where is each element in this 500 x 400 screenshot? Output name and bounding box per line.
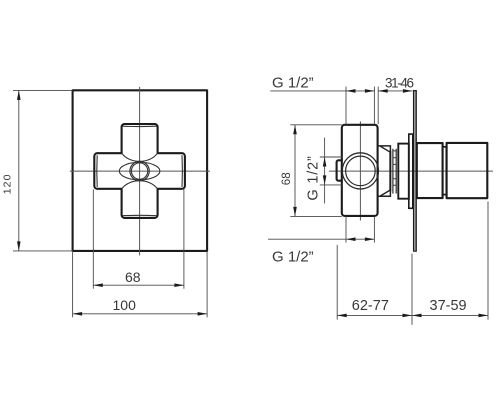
thread ticks bbox=[393, 151, 397, 185]
left port bump bbox=[337, 160, 342, 180]
side G 1/2 arrow down bbox=[323, 175, 327, 185]
outer center circle bbox=[130, 161, 149, 180]
wall plate bbox=[414, 91, 416, 252]
right arm chamfer line bbox=[181, 155, 183, 187]
bottom G 1/2 extension line left bbox=[345, 216, 347, 242]
dimension 37-59 arrow right bbox=[479, 314, 489, 318]
dimension 120 line bbox=[18, 90, 20, 251]
dimension 68 (right) arrow up bbox=[293, 125, 297, 135]
dimension 100 arrow left bbox=[73, 312, 83, 316]
dimension 31-46 arrow left bbox=[378, 89, 388, 93]
dimension 68 (right) extension line bottom bbox=[290, 215, 342, 217]
svg-text:31-46: 31-46 bbox=[385, 76, 414, 91]
bottom G 1/2 arrow left bbox=[346, 237, 356, 241]
dimension 68 extension line right bbox=[183, 189, 185, 289]
center ellipse bbox=[119, 162, 160, 180]
dimension 37-59 line bbox=[412, 314, 488, 316]
dimension 31-46 arrow right bbox=[403, 89, 413, 93]
dimension 68 (right) extension line top bbox=[290, 124, 342, 126]
square plate bbox=[73, 90, 208, 251]
side port outer circle bbox=[342, 153, 378, 189]
svg-text:120: 120 bbox=[2, 174, 14, 194]
dimension 100 line bbox=[73, 313, 208, 315]
handle neck bbox=[417, 143, 443, 198]
dimension 68 arrow left bbox=[93, 283, 103, 287]
svg-text:G 1/2”: G 1/2” bbox=[272, 249, 314, 266]
svg-text:G 1/2”: G 1/2” bbox=[305, 156, 321, 201]
boss face edge bbox=[389, 151, 391, 192]
dimension 62-77 arrow right bbox=[403, 314, 413, 318]
dimension 120 arrow down bbox=[17, 241, 21, 251]
svg-text:68: 68 bbox=[125, 269, 141, 285]
dimension 31-46 line bbox=[378, 90, 412, 92]
svg-text:68: 68 bbox=[281, 172, 293, 185]
top G 1/2 leader line bbox=[270, 90, 374, 92]
dimension 120 extension line bottom bbox=[13, 250, 73, 252]
svg-text:37-59: 37-59 bbox=[430, 298, 467, 314]
dimension 68 arrow right bbox=[174, 283, 184, 287]
top G 1/2 extension line right bbox=[373, 87, 375, 125]
inner center circle bbox=[131, 163, 147, 179]
side G 1/2 extension line top bbox=[320, 156, 342, 158]
top arm chamfer line bbox=[123, 125, 157, 127]
top G 1/2 arrow left bbox=[346, 89, 356, 93]
dimension 120 arrow up bbox=[17, 90, 21, 100]
svg-text:G 1/2”: G 1/2” bbox=[272, 74, 314, 91]
dimension 100 arrow right bbox=[198, 312, 208, 316]
vertical centerline bbox=[139, 87, 141, 256]
bottom G 1/2 leader line bbox=[268, 238, 374, 240]
valve body bbox=[342, 125, 378, 216]
svg-text:62-77: 62-77 bbox=[352, 298, 389, 314]
dimension 120 extension line top bbox=[13, 89, 73, 91]
horizontal centerline bbox=[70, 170, 210, 172]
left arm chamfer line bbox=[96, 155, 98, 187]
bottom G 1/2 extension line right bbox=[373, 216, 375, 242]
top G 1/2 extension line left bbox=[345, 87, 347, 125]
bottom G 1/2 arrow right bbox=[365, 237, 375, 241]
side G 1/2 arrow up bbox=[323, 157, 327, 167]
bottom fillet curve bbox=[122, 181, 157, 189]
top G 1/2 arrow right bbox=[365, 89, 375, 93]
bottom arm chamfer line bbox=[123, 214, 157, 216]
dimension 100 extension line right bbox=[206, 251, 208, 317]
dimension 37-59 extension line right bbox=[487, 202, 489, 320]
threaded section side lines bbox=[393, 149, 396, 194]
dimension 68 (right) line bbox=[294, 125, 296, 217]
dimension 68 line bbox=[93, 284, 184, 286]
mounting collar bbox=[398, 144, 409, 199]
side G 1/2 dimension line bbox=[324, 138, 326, 204]
handle knob bbox=[447, 143, 488, 198]
svg-text:100: 100 bbox=[113, 297, 137, 313]
dimension 62-77 extension line left bbox=[336, 245, 338, 320]
dimension 62-77 line bbox=[337, 314, 412, 316]
dimension 68 (right) arrow down bbox=[293, 207, 297, 217]
dimension 31-46 extension line bbox=[377, 87, 379, 125]
side G 1/2 extension line bottom bbox=[320, 184, 342, 186]
boss top chamfer bbox=[380, 146, 390, 152]
side port inner circle bbox=[346, 156, 376, 186]
cartridge boss bbox=[378, 146, 391, 196]
cross handle outline bbox=[94, 124, 185, 218]
top fillet curve bbox=[122, 153, 157, 161]
shared extension line below wall plate bbox=[411, 254, 413, 325]
dimension 100 extension line left bbox=[72, 251, 74, 317]
horizontal centerline bbox=[329, 170, 493, 172]
boss bottom chamfer bbox=[380, 190, 390, 196]
dimension 37-59 arrow left bbox=[412, 314, 422, 318]
dimension 62-77 arrow left bbox=[337, 314, 347, 318]
vertical centerline bbox=[359, 121, 361, 220]
collar ring bbox=[409, 134, 413, 208]
handle step ring bbox=[443, 147, 447, 195]
dimension 68 extension line left bbox=[92, 189, 94, 289]
